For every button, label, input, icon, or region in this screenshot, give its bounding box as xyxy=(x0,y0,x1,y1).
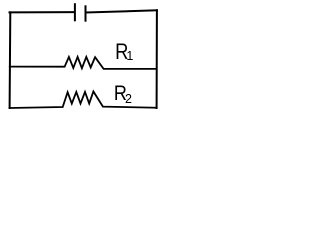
svg-text:2: 2 xyxy=(125,92,132,106)
svg-text:1: 1 xyxy=(126,49,133,63)
